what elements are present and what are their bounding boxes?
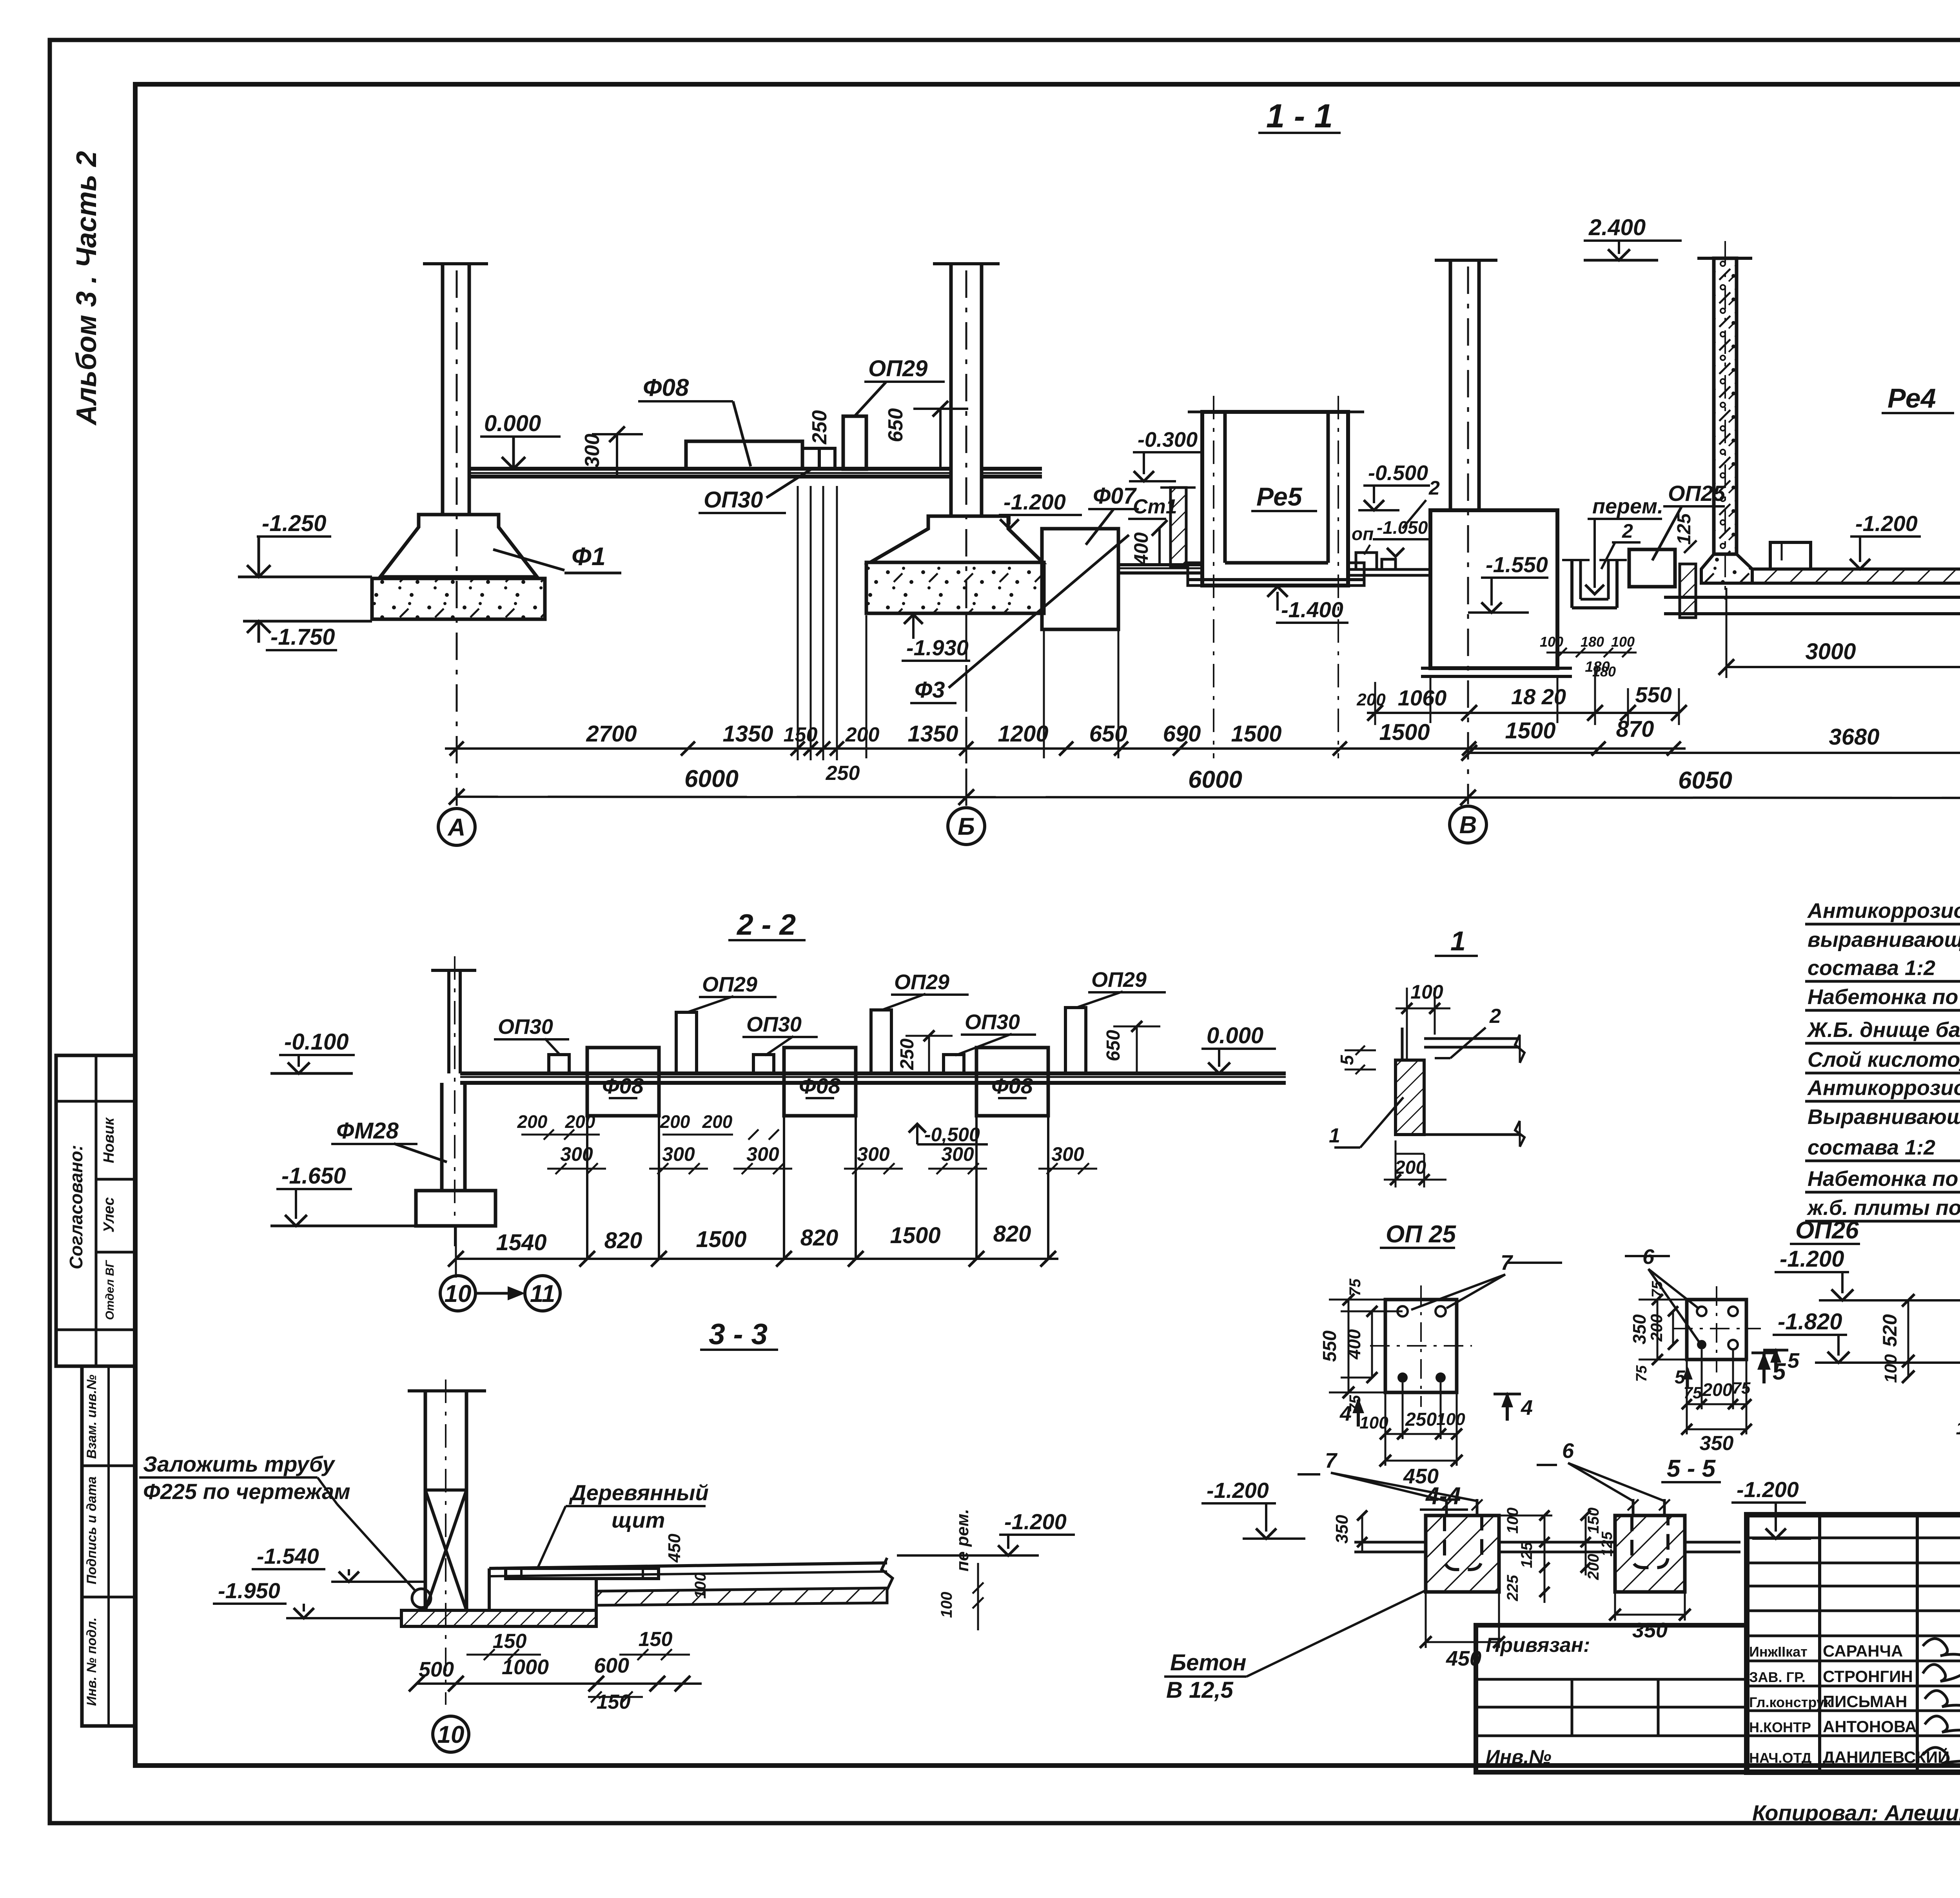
- svg-text:6000: 6000: [684, 765, 739, 792]
- svg-text:150: 150: [784, 723, 818, 746]
- tank Re4 left wall: [1714, 258, 1737, 554]
- svg-text:1000: 1000: [502, 1655, 549, 1679]
- svg-text:ж.б. плиты поддона: ж.б. плиты поддона: [1806, 1196, 1960, 1220]
- svg-text:-0.100: -0.100: [284, 1029, 348, 1055]
- svg-text:125: 125: [1599, 1531, 1615, 1556]
- svg-text:690: 690: [1163, 721, 1201, 747]
- svg-text:выравнивающий слой из цемент: выравнивающий слой из цементно-песчаного…: [1808, 928, 1960, 952]
- wall FM28 below floor: [440, 1083, 444, 1191]
- svg-text:10: 10: [445, 1280, 472, 1307]
- svg-text:650: 650: [1103, 1030, 1124, 1061]
- svg-text:пе рем.: пе рем.: [953, 1509, 972, 1572]
- svg-text:Подпись и дата: Подпись и дата: [84, 1476, 99, 1584]
- svg-text:1500: 1500: [1379, 720, 1430, 745]
- svg-text:1 - 1: 1 - 1: [1266, 98, 1333, 135]
- svg-text:100: 100: [1359, 1413, 1388, 1432]
- right dim row 3000/1500: [1726, 666, 1960, 668]
- tank Re4 centerlines: [1724, 241, 1726, 600]
- floor -1.400 left of Re5: [1118, 563, 1202, 566]
- svg-text:-1.200: -1.200: [1780, 1246, 1844, 1272]
- svg-text:11: 11: [530, 1280, 555, 1307]
- pipe F225: [412, 1589, 431, 1608]
- stand C11: [1171, 488, 1186, 566]
- svg-text:3000: 3000: [1805, 639, 1856, 664]
- upper dimension line row: [445, 747, 1686, 750]
- svg-text:1500: 1500: [890, 1223, 940, 1248]
- anchor bolts on top: [1445, 1499, 1448, 1515]
- svg-text:-0,500: -0,500: [924, 1124, 980, 1146]
- svg-text:300: 300: [1051, 1143, 1084, 1165]
- svg-text:350: 350: [1700, 1432, 1734, 1455]
- svg-text:200: 200: [1647, 1314, 1666, 1342]
- svg-text:ДАНИЛЕВСКИЙ: ДАНИЛЕВСКИЙ: [1823, 1748, 1949, 1766]
- svg-text:ОП30: ОП30: [965, 1010, 1020, 1034]
- dim 350 of 5-5: [1615, 1614, 1685, 1616]
- svg-text:180: 180: [1592, 663, 1616, 680]
- svg-text:400: 400: [1344, 1329, 1364, 1360]
- floor lines around 4-4: [1354, 1541, 1426, 1544]
- left stamp: soglasovano table: [56, 1055, 135, 1366]
- svg-text:ФМ28: ФМ28: [336, 1118, 399, 1144]
- dim row 3680/2120: [1469, 752, 1960, 754]
- svg-text:5: 5: [1337, 1055, 1357, 1065]
- svg-text:650: 650: [1089, 721, 1127, 747]
- svg-text:-1.200: -1.200: [1737, 1477, 1799, 1502]
- svg-text:150: 150: [493, 1630, 527, 1653]
- svg-text:1500: 1500: [1505, 718, 1555, 743]
- svg-text:ОП29: ОП29: [1091, 968, 1147, 992]
- svg-text:Улес: Улес: [101, 1197, 117, 1233]
- svg-text:-1.200: -1.200: [1855, 511, 1918, 536]
- hatched pier: [1680, 564, 1696, 618]
- svg-text:1: 1: [1450, 926, 1466, 956]
- svg-text:350: 350: [1332, 1515, 1352, 1544]
- svg-text:Копировал: Алешикова: Копировал: Алешикова: [1752, 1800, 1960, 1825]
- svg-text:3 - 3: 3 - 3: [709, 1318, 768, 1351]
- wooden shield rect: [506, 1568, 659, 1579]
- OP25 plan rect: [1385, 1300, 1457, 1392]
- svg-text:300: 300: [662, 1143, 695, 1165]
- svg-text:Ф08: Ф08: [602, 1073, 644, 1098]
- axis circle 10 of 3-3: [433, 1716, 469, 1752]
- bottom shelf slab: [1664, 596, 1960, 599]
- svg-text:5: 5: [1788, 1349, 1800, 1372]
- svg-text:-1.400: -1.400: [1281, 597, 1343, 622]
- braced column 3-3: [408, 1389, 486, 1392]
- svg-text:250: 250: [1405, 1409, 1437, 1430]
- base slab under column 3-3: [401, 1610, 596, 1626]
- svg-text:500: 500: [419, 1658, 454, 1681]
- svg-text:Слой кислотоупорного щебня м: Слой кислотоупорного щебня мелкой фракци…: [1808, 1048, 1960, 1071]
- svg-text:1500: 1500: [696, 1227, 746, 1252]
- svg-text:Н.КОНТР: Н.КОНТР: [1749, 1719, 1811, 1735]
- witness lines cluster near 150/250/200: [797, 486, 799, 760]
- svg-text:2700: 2700: [586, 721, 637, 747]
- svg-text:ПИСЬМАН: ПИСЬМАН: [1823, 1692, 1907, 1711]
- svg-text:Ф07: Ф07: [1093, 483, 1137, 509]
- signature squiggles: [1923, 1639, 1960, 1658]
- floor slab 0.000 between A and B: [469, 467, 951, 471]
- svg-text:Набетонка по уклону из бет: Набетонка по уклону из бетона В3,5;: [1808, 985, 1960, 1009]
- svg-text:Отдел ВГ: Отдел ВГ: [103, 1260, 116, 1320]
- main title block frame: [1747, 1515, 1960, 1772]
- svg-text:В 12,5: В 12,5: [1166, 1677, 1234, 1703]
- svg-text:-1.200: -1.200: [1004, 1509, 1067, 1534]
- svg-text:-1.550: -1.550: [1486, 552, 1548, 577]
- svg-text:перем.: перем.: [1592, 495, 1663, 518]
- svg-text:-1.200: -1.200: [1004, 489, 1066, 514]
- svg-text:600: 600: [594, 1654, 629, 1677]
- svg-text:10: 10: [437, 1721, 465, 1748]
- svg-text:75: 75: [1649, 1281, 1666, 1298]
- OP26 bottom dims: [1687, 1403, 1746, 1405]
- svg-text:200: 200: [845, 723, 880, 746]
- svg-text:100: 100: [1611, 634, 1635, 650]
- svg-text:300: 300: [581, 434, 604, 468]
- svg-text:Антикоррозионная защита (см.: Антикоррозионная защита (см. раздел А3) …: [1807, 899, 1960, 923]
- OP25 bottom dims: [1385, 1433, 1457, 1435]
- support block 4-4 hatched: [1426, 1515, 1499, 1592]
- OP26 plan rect: [1687, 1300, 1746, 1360]
- bottom dim line of 2-2: [456, 1258, 1058, 1260]
- title block horizontal rows left part: [1747, 1537, 1960, 1539]
- OP25 left dims: [1348, 1300, 1350, 1392]
- floor slab of 2-2: [460, 1071, 1286, 1075]
- svg-text:Ст1: Ст1: [1133, 495, 1177, 518]
- svg-text:Инв. № подл.: Инв. № подл.: [84, 1617, 99, 1706]
- svg-text:300: 300: [746, 1143, 779, 1165]
- svg-text:300: 300: [857, 1143, 890, 1165]
- svg-text:состава 1:2: состава 1:2: [1808, 956, 1935, 980]
- svg-text:75: 75: [1347, 1278, 1364, 1296]
- svg-text:250: 250: [808, 410, 831, 445]
- svg-text:200: 200: [517, 1111, 548, 1132]
- svg-text:А: А: [447, 814, 466, 841]
- svg-text:-1.750: -1.750: [270, 624, 335, 650]
- level -0.500 mark: [909, 1124, 926, 1133]
- svg-text:В: В: [1459, 812, 1477, 839]
- grid centerline B (Б): [965, 270, 967, 806]
- svg-text:Бетон: Бетон: [1170, 1650, 1247, 1675]
- svg-text:6050: 6050: [1678, 767, 1732, 794]
- svg-text:ОП30: ОП30: [704, 487, 763, 513]
- svg-text:оп: оп: [1352, 524, 1374, 544]
- grid centerline V (В): [1467, 266, 1469, 804]
- slab F08 on floor: [686, 441, 802, 469]
- footing F3 under column B: [870, 516, 1043, 562]
- svg-text:100: 100: [1540, 634, 1563, 650]
- svg-text:450: 450: [665, 1534, 684, 1563]
- svg-text:1060: 1060: [1398, 685, 1447, 710]
- foundation block F07: [1042, 529, 1118, 629]
- svg-text:Ре4: Ре4: [1887, 383, 1936, 413]
- svg-text:100: 100: [938, 1592, 955, 1618]
- svg-text:6000: 6000: [1188, 766, 1242, 793]
- svg-text:3680: 3680: [1829, 724, 1879, 750]
- svg-text:щит: щит: [612, 1508, 665, 1532]
- svg-text:4: 4: [1521, 1396, 1533, 1419]
- svg-text:100: 100: [692, 1573, 709, 1599]
- svg-text:650: 650: [884, 408, 907, 442]
- support block 5-5 hatched: [1615, 1515, 1685, 1592]
- svg-text:Ф3: Ф3: [915, 677, 945, 703]
- intermediate dim row 200/1060/1820/550: [1367, 712, 1679, 714]
- svg-text:Согласовано:: Согласовано:: [66, 1145, 86, 1269]
- svg-text:75: 75: [1633, 1365, 1650, 1382]
- svg-text:Взам. инв.№: Взам. инв.№: [84, 1374, 99, 1459]
- svg-text:Ж.Б. днище бака: Ж.Б. днище бака: [1806, 1018, 1960, 1042]
- svg-text:180: 180: [1581, 634, 1604, 650]
- svg-text:Заложить трубу: Заложить трубу: [143, 1452, 336, 1476]
- left stamp: inv table: [82, 1366, 135, 1726]
- grid circle V: [1450, 806, 1486, 843]
- pit box -1.550: [1430, 510, 1557, 668]
- floor of 3-3: [489, 1563, 887, 1568]
- svg-text:200: 200: [1702, 1380, 1733, 1400]
- column V (В): [1435, 259, 1497, 262]
- title block vertical lines: [1818, 1515, 1821, 1772]
- svg-text:350: 350: [1629, 1314, 1650, 1344]
- svg-text:100: 100: [1881, 1354, 1900, 1383]
- svg-text:1350: 1350: [907, 721, 958, 747]
- svg-text:Привязан:: Привязан:: [1486, 1634, 1590, 1657]
- OP26 bolts: [1697, 1307, 1706, 1316]
- svg-text:САРАНЧА: САРАНЧА: [1823, 1642, 1903, 1660]
- svg-text:ОП29: ОП29: [894, 970, 949, 994]
- OP26 left dims: [1657, 1300, 1659, 1360]
- svg-text:Ре5: Ре5: [1256, 482, 1303, 511]
- svg-text:820: 820: [800, 1225, 838, 1251]
- svg-text:Гл.конструк: Гл.конструк: [1749, 1694, 1832, 1710]
- svg-text:-1.250: -1.250: [262, 511, 326, 536]
- svg-text:150: 150: [1585, 1508, 1602, 1534]
- svg-text:400: 400: [1130, 532, 1152, 566]
- grid circle B: [948, 808, 985, 845]
- svg-text:Б: Б: [958, 813, 975, 840]
- svg-text:ИнжIIкат: ИнжIIкат: [1749, 1644, 1808, 1660]
- svg-text:350: 350: [1632, 1619, 1668, 1642]
- small step OP30: [802, 448, 819, 469]
- supports OP29 row: [676, 1012, 697, 1073]
- svg-text:520: 520: [1879, 1314, 1901, 1347]
- svg-text:225: 225: [1504, 1575, 1521, 1601]
- svg-text:200: 200: [565, 1111, 595, 1132]
- dims 500 1000 600: [417, 1682, 702, 1685]
- svg-text:5 - 5: 5 - 5: [1667, 1455, 1716, 1482]
- supports OP30 on floor: [549, 1055, 569, 1073]
- svg-text:состава 1:2: состава 1:2: [1808, 1136, 1935, 1159]
- svg-text:100: 100: [1410, 981, 1443, 1003]
- svg-text:ОП30: ОП30: [498, 1015, 553, 1039]
- svg-text:200: 200: [1356, 690, 1386, 709]
- witness below B footing: [965, 613, 967, 806]
- svg-text:200: 200: [702, 1111, 733, 1132]
- svg-text:1350: 1350: [722, 721, 773, 747]
- support OP29: [843, 416, 866, 469]
- svg-text:550: 550: [1319, 1331, 1340, 1362]
- svg-text:СТРОНГИН: СТРОНГИН: [1823, 1667, 1913, 1686]
- svg-text:-1.930: -1.930: [906, 635, 969, 660]
- svg-text:150: 150: [639, 1628, 673, 1651]
- floor right of Re5, supports op: [1350, 568, 1430, 571]
- svg-text:2 - 2: 2 - 2: [736, 908, 796, 941]
- OP25 bolts: [1397, 1306, 1408, 1316]
- svg-text:ЗАВ. ГР.: ЗАВ. ГР.: [1749, 1669, 1806, 1685]
- svg-text:Ф08: Ф08: [799, 1073, 841, 1098]
- floor lines around 5-5: [1562, 1541, 1615, 1544]
- svg-text:ОП30: ОП30: [746, 1013, 802, 1036]
- svg-text:1200: 1200: [998, 721, 1048, 747]
- tank Re4 floor slab: [1752, 569, 1960, 583]
- svg-text:ОП 25: ОП 25: [1386, 1221, 1457, 1248]
- svg-text:550: 550: [1635, 682, 1671, 707]
- svg-text:Деревянный: Деревянный: [569, 1480, 709, 1505]
- svg-text:-1.540: -1.540: [257, 1544, 319, 1568]
- wall FM28 column above floor: [431, 969, 476, 972]
- svg-text:Альбом 3 . Часть 2: Альбом 3 . Часть 2: [71, 151, 102, 426]
- svg-text:125: 125: [1674, 513, 1695, 545]
- svg-text:100: 100: [1504, 1508, 1521, 1534]
- svg-text:820: 820: [993, 1221, 1031, 1247]
- svg-text:Выравнивающий слой из цемен: Выравнивающий слой из цементно-песчаного…: [1808, 1105, 1960, 1129]
- tank Re5: [1202, 412, 1348, 586]
- tank Re4 top edge ticks: [1697, 257, 1752, 260]
- svg-text:300: 300: [941, 1143, 974, 1165]
- svg-text:Ф08: Ф08: [991, 1073, 1033, 1098]
- svg-text:ОП29: ОП29: [702, 973, 757, 996]
- svg-text:АНТОНОВА: АНТОНОВА: [1823, 1717, 1917, 1736]
- svg-text:Ф1: Ф1: [572, 542, 606, 571]
- svg-text:Антикоррозионная защита (см.: Антикоррозионная защита (см. раздел А3): [1807, 1076, 1960, 1100]
- dim 450 of small 4-4: [1426, 1641, 1499, 1643]
- grid centerline A: [456, 270, 458, 806]
- svg-text:2: 2: [1428, 477, 1440, 499]
- svg-text:Набетонка по уклону из бет: Набетонка по уклону из бетона В3,5-: [1808, 1167, 1960, 1191]
- svg-text:820: 820: [604, 1228, 642, 1253]
- svg-text:2: 2: [1489, 1005, 1501, 1028]
- svg-text:7: 7: [1325, 1449, 1338, 1472]
- svg-text:Ф225 по чертежам: Ф225 по чертежам: [143, 1479, 350, 1504]
- wall of detail 1: [1396, 1060, 1424, 1135]
- svg-text:-0.500: -0.500: [1368, 461, 1428, 485]
- column A: [423, 262, 488, 265]
- svg-text:100: 100: [1956, 1418, 1960, 1438]
- support OP25 in section: [1629, 549, 1675, 587]
- axis circles 10 and 11: [440, 1276, 475, 1311]
- blocks F08 row: [587, 1048, 659, 1116]
- lower dimension line 6000/6000/6050: [457, 797, 1960, 798]
- dim 200 bottom of detail 1: [1396, 1153, 1424, 1155]
- svg-text:ОП29: ОП29: [868, 356, 927, 381]
- svg-text:-1.820: -1.820: [1778, 1309, 1842, 1334]
- svg-text:300: 300: [560, 1143, 593, 1165]
- grid circle A: [438, 809, 475, 845]
- svg-text:1540: 1540: [496, 1230, 546, 1255]
- privyazan box: [1476, 1625, 1747, 1772]
- svg-text:-0.300: -0.300: [1138, 428, 1198, 451]
- anchor bolts 5-5: [1632, 1499, 1635, 1515]
- column B (Б): [933, 262, 1000, 265]
- view arrow 5 left: [1762, 1354, 1766, 1383]
- svg-text:0.000: 0.000: [1207, 1023, 1263, 1048]
- U channel dashed inside: [1445, 1515, 1482, 1570]
- svg-text:Ф08: Ф08: [643, 374, 689, 401]
- svg-text:150: 150: [597, 1691, 631, 1713]
- svg-text:250: 250: [897, 1039, 918, 1070]
- svg-text:250: 250: [826, 762, 860, 785]
- svg-text:Новик: Новик: [101, 1117, 117, 1163]
- small pedestal on tank floor: [1770, 542, 1811, 569]
- svg-text:200: 200: [660, 1111, 690, 1132]
- svg-text:18 20: 18 20: [1511, 684, 1566, 709]
- svg-text:ОП26: ОП26: [1795, 1217, 1859, 1244]
- svg-text:1500: 1500: [1231, 721, 1281, 747]
- footing F1 under column A: [380, 515, 537, 577]
- svg-text:6: 6: [1562, 1439, 1574, 1463]
- svg-text:Инв.№: Инв.№: [1486, 1746, 1552, 1768]
- svg-text:НАЧ.ОТД: НАЧ.ОТД: [1749, 1750, 1811, 1766]
- trench (channel): [1570, 560, 1573, 608]
- svg-text:2.400: 2.400: [1588, 215, 1646, 240]
- footing of FM28: [416, 1191, 495, 1226]
- svg-text:1: 1: [1329, 1124, 1340, 1147]
- svg-text:125: 125: [1518, 1542, 1535, 1568]
- svg-text:75: 75: [1732, 1379, 1751, 1397]
- svg-text:-1.200: -1.200: [1207, 1478, 1269, 1503]
- svg-text:2: 2: [1622, 520, 1633, 542]
- pit below column 3-3: [488, 1568, 491, 1610]
- svg-text:-1.650: -1.650: [281, 1163, 346, 1189]
- svg-text:4: 4: [1339, 1402, 1352, 1425]
- svg-text:-1.950: -1.950: [218, 1578, 280, 1603]
- svg-text:0.000: 0.000: [484, 411, 541, 436]
